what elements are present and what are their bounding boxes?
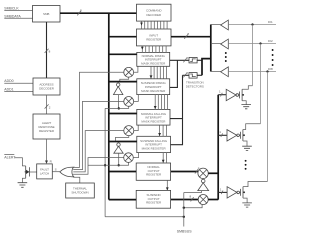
wire riser to transition detector 2	[183, 74, 190, 76]
transistor M3 (IO8 open drain)	[240, 182, 268, 203]
wire select to U4	[118, 153, 120, 165]
svg-text:MASK REGISTER: MASK REGISTER	[141, 62, 166, 66]
wire address decoder to alert response register	[46, 95, 48, 114]
wire bus normal output to suspend output register	[166, 180, 169, 190]
transistor Q1 (ALERT open-drain NMOS)	[22, 166, 29, 183]
wire X1 to suspend rising input line	[120, 77, 129, 81]
wire OR input 3 from falling-normal XOR	[73, 131, 124, 172]
wire ADD1 to address decoder	[4, 91, 33, 93]
wire OR input 2 from rising-suspend XOR	[73, 101, 124, 169]
svg-text:MASK REGISTER: MASK REGISTER	[141, 119, 166, 123]
wire SMBSUS select line (upper)	[105, 106, 129, 108]
block suspend falling interrupt mask register	[137, 136, 171, 152]
junction dot	[183, 216, 185, 218]
wire X6 to driver bus	[208, 199, 218, 201]
wire SMBSUS select line (lower)	[88, 162, 129, 165]
node SMBSUS	[177, 230, 192, 234]
svg-text:REGISTER: REGISTER	[146, 201, 162, 205]
svg-text:DECODER: DECODER	[39, 87, 55, 91]
ellipsis dots (IO pins)	[272, 49, 274, 66]
wire suspend falling mask to riser	[171, 119, 183, 145]
buffer U5 (IO1 input, pointing left)	[211, 20, 276, 30]
wire bus normal rising to suspend rising mask	[150, 66, 167, 79]
wire X5 to driver bus	[208, 172, 218, 174]
block normal output register	[136, 163, 170, 180]
wire SMBDATA to SMB	[4, 17, 32, 19]
wire SMBSUS select vertical	[104, 108, 106, 216]
bus width slash 1	[220, 187, 223, 194]
svg-text:REGISTER: REGISTER	[146, 38, 162, 42]
wire OR input 4 from falling-suspend XOR	[73, 158, 124, 175]
wire SMBSUS to X6	[184, 205, 202, 208]
wire SMBSUS bottom return	[105, 216, 184, 218]
transistor M1 (IO1 open drain)	[239, 86, 253, 105]
svg-text:MASK REGISTER: MASK REGISTER	[141, 89, 166, 93]
svg-text:S: S	[55, 168, 57, 172]
buffer U6 (IO2 input, pointing left)	[211, 39, 276, 49]
svg-text:ALERT: ALERT	[4, 156, 16, 160]
wire input register to IO buffers (8-bit)	[171, 36, 211, 38]
node SMBCLK	[4, 7, 19, 11]
wire output driver bus vertical	[217, 95, 219, 200]
bus width slash 8	[45, 49, 51, 54]
wire bus to driver 2	[218, 134, 227, 136]
junction dot	[118, 164, 120, 166]
junction dot IO2	[259, 42, 261, 44]
block SMB interface U1	[33, 6, 61, 23]
ellipsis dots (drivers)	[245, 160, 247, 170]
wire bus to normal output register	[109, 171, 136, 173]
wire suspend output register to X6	[171, 199, 198, 201]
node ADD1	[4, 87, 13, 91]
junction dot IO1	[251, 23, 253, 25]
junction dot	[118, 107, 120, 109]
inverter U10 (driver IO8)	[227, 187, 239, 198]
wire bus suspend rising to normal falling mask	[154, 95, 168, 110]
bus width slash 8	[190, 195, 194, 202]
wire X1 to normal rising mask register	[134, 67, 138, 73]
wire transition detector 1 to interrupt bus	[197, 59, 202, 61]
ellipsis dots (buffers)	[225, 52, 227, 62]
bus width slash 1	[219, 130, 222, 137]
wire SMBSUS riser	[183, 193, 185, 227]
bus width slash 8	[183, 71, 188, 77]
svg-text:SHUTDOWN: SHUTDOWN	[71, 191, 88, 195]
wire bus to suspend rising mask	[109, 81, 137, 83]
wire ALERT to transistor Q1 drain	[15, 158, 26, 166]
node ALERT (active low)	[4, 155, 16, 160]
svg-text:SMBSUS: SMBSUS	[177, 230, 192, 234]
pin IO1	[268, 20, 273, 24]
xor X4 (falling suspend)	[124, 153, 134, 163]
inverter U3 (suspend select, pointing up)	[114, 83, 123, 95]
xor X6 (suspend output mux)	[198, 195, 208, 205]
wire SMBSUS to U11	[184, 191, 202, 193]
block suspend rising interrupt mask register	[137, 79, 170, 95]
bus width slash 2	[45, 104, 51, 109]
wire OR input 1 from rising-normal XOR	[73, 72, 124, 167]
bus width slash 8	[183, 56, 188, 62]
xor X2 (rising suspend)	[124, 97, 134, 107]
block suspend output register	[136, 190, 170, 208]
wire OR gate output to fault latch S	[52, 171, 60, 173]
block transition detector 2 (falling)	[189, 73, 197, 79]
wire bus to driver 3	[218, 191, 227, 193]
wire select to U3	[118, 95, 120, 109]
bus width slash 8	[195, 167, 200, 174]
wire bus command decoder to input register	[140, 21, 167, 29]
block normal rising interrupt mask register	[137, 52, 170, 66]
svg-text:REGISTER: REGISTER	[146, 173, 162, 177]
block command decoder	[137, 4, 172, 21]
wire bus suspend falling to normal output register	[162, 153, 167, 163]
wire bus normal falling to suspend falling mask	[158, 125, 166, 136]
pin IO2	[268, 39, 273, 43]
wire SMBCLK to SMB	[4, 10, 32, 12]
svg-text:SMBDATA: SMBDATA	[4, 14, 21, 18]
svg-text:SMB: SMB	[43, 12, 49, 16]
wire bus to normal rising mask	[109, 53, 137, 55]
buffer U7 (IO8 input, pointing left)	[211, 67, 276, 77]
svg-text:MASK REGISTER: MASK REGISTER	[142, 146, 167, 150]
gate U2 (OR, mirrored pointing left)	[60, 167, 74, 177]
bus width slash 8	[77, 8, 82, 15]
junction dot	[104, 164, 106, 166]
wire X2 to suspend rising mask register	[134, 95, 139, 102]
wire main internal bus (vertical)	[108, 13, 110, 199]
wire SMB to command decoder (8-bit)	[60, 12, 137, 14]
svg-text:IO8: IO8	[268, 67, 273, 71]
block fault latch	[37, 164, 53, 179]
ground for M2	[242, 146, 252, 150]
svg-text:IO1: IO1	[268, 20, 273, 24]
svg-text:ADD0: ADD0	[4, 79, 13, 83]
wire transition detector 2 to interrupt bus	[197, 74, 202, 76]
block alert response register	[33, 114, 60, 139]
wire bus to suspend output register	[109, 199, 136, 201]
svg-text:SMBCLK: SMBCLK	[4, 7, 19, 11]
block transition detector 1 (rising)	[189, 57, 197, 63]
xor X3 (falling normal)	[124, 126, 134, 136]
wire bus to normal falling mask	[109, 113, 137, 115]
inverter U8 (driver IO1)	[226, 89, 238, 100]
ground for M1	[241, 105, 251, 109]
wire suspend rising mask output riser	[170, 60, 178, 87]
ground for Q1	[18, 183, 28, 188]
wire interrupt bus vertical	[202, 59, 211, 76]
bus width slash 1	[219, 90, 222, 97]
bus width slash 8	[184, 32, 189, 39]
wire normal output register to X5	[171, 171, 198, 173]
wire X3 to suspend falling input line	[116, 136, 129, 141]
wire bus to driver 1	[218, 94, 226, 96]
inverter U9 (driver IO2)	[227, 130, 239, 141]
wire fault latch output to Q1 gate	[30, 171, 37, 173]
wire bus input register to normal rising mask	[141, 46, 166, 53]
pin label S (set input of fault latch)	[55, 168, 57, 172]
node ADD0	[4, 79, 13, 83]
xor X5 (normal output mux)	[198, 168, 208, 178]
block thermal shutdown	[66, 183, 95, 198]
svg-text:IO2: IO2	[268, 39, 273, 43]
wire SMB to address decoder	[46, 22, 48, 78]
svg-text:ADD1: ADD1	[4, 87, 13, 91]
wire IO2 line down to M2 drain	[260, 44, 262, 124]
inverter U4 (suspend select, pointing up)	[114, 143, 123, 153]
wire bus to input register	[109, 36, 137, 38]
pin IO8	[268, 67, 273, 71]
block normal falling interrupt mask register	[137, 109, 170, 125]
wire normal falling mask output riser	[170, 75, 183, 118]
wire ADD0 to address decoder	[4, 82, 33, 84]
wire bus to suspend falling mask	[109, 141, 137, 143]
svg-text:REGISTER: REGISTER	[39, 129, 55, 133]
node SMBDATA	[4, 14, 21, 18]
svg-text:LATCH: LATCH	[40, 172, 49, 176]
wire IO buffer bus vertical	[210, 25, 212, 72]
wire X3 to normal falling mask register	[134, 125, 138, 130]
svg-text:DETECTORS: DETECTORS	[186, 85, 204, 89]
inverter U11 (suspend select for outputs, pointing up)	[198, 179, 209, 190]
transistor M2 (IO2 open drain)	[239, 124, 260, 147]
block address decoder	[33, 78, 60, 95]
junction dot	[183, 207, 185, 209]
wire X4 to suspend falling mask register	[133, 153, 138, 158]
ground for M3	[242, 203, 252, 207]
xor X1 (rising normal)	[124, 67, 134, 77]
label transition detectors	[186, 81, 204, 89]
wire normal rising mask to transition detector 1	[170, 59, 189, 61]
wire IO1 line down to M1 drain	[252, 25, 254, 86]
wire IO8 line down to M3 drain	[267, 72, 269, 182]
svg-text:DECODER: DECODER	[146, 13, 162, 17]
wire thermal shutdown to OR gate	[74, 176, 80, 183]
block input register	[137, 29, 172, 46]
junction dot IO8	[266, 70, 268, 72]
wire alert response register to fault latch (with arrow)	[45, 139, 53, 164]
